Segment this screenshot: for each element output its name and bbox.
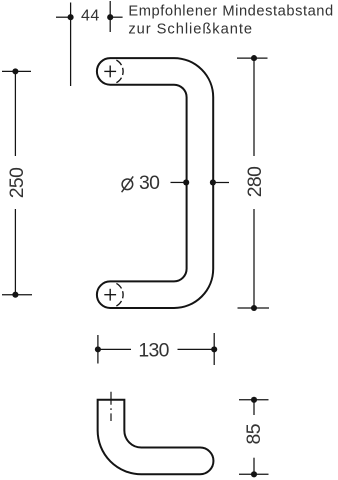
svg-text:Empfohlener Mindestabstand: Empfohlener Mindestabstand [128,4,333,20]
svg-text:44: 44 [81,8,100,25]
svg-text:zur Schließkante: zur Schließkante [128,22,253,38]
svg-text:30: 30 [139,172,160,194]
svg-text:130: 130 [138,339,169,361]
svg-text:85: 85 [243,424,265,444]
svg-text:280: 280 [244,166,266,197]
svg-text:250: 250 [6,167,28,198]
